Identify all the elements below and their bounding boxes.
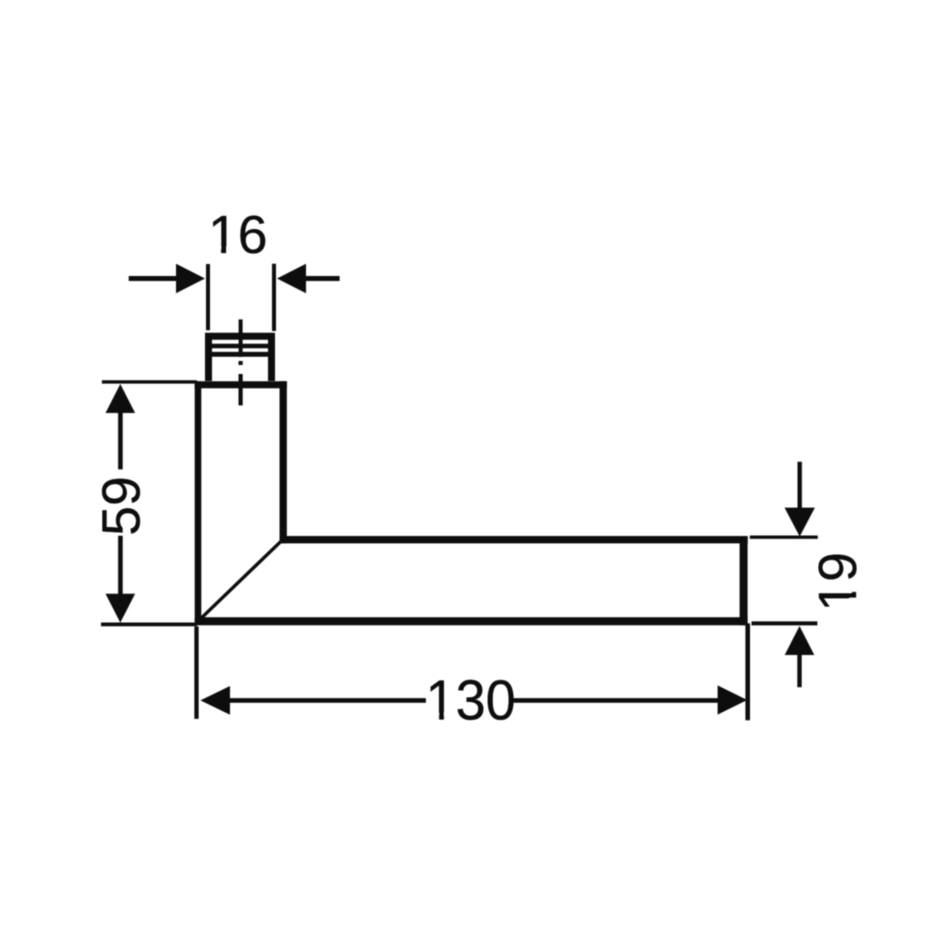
svg-text:59: 59	[93, 476, 152, 536]
svg-text:19: 19	[809, 552, 868, 612]
svg-text:130: 130	[426, 668, 516, 731]
svg-text:16: 16	[208, 206, 268, 265]
